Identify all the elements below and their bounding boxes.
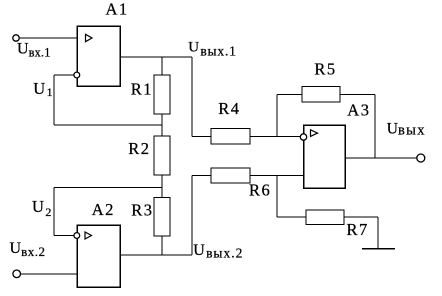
input terminal Uвх.2	[13, 270, 21, 278]
wire A1 output to node Uвых.1	[120, 56, 192, 58]
wire A1 feedback vertical	[53, 75, 55, 125]
wire R4 right to A3 inverting input	[250, 136, 301, 138]
resistor R2	[154, 136, 170, 175]
op-amp A2 inverting input circle	[74, 233, 80, 239]
svg-text:R7: R7	[347, 220, 369, 239]
resistor R7	[306, 210, 344, 225]
op-amp A1 inverting input circle	[74, 72, 80, 78]
op-amp A3 body	[304, 125, 346, 188]
wire to R4 left	[192, 136, 211, 138]
wire node to R1 top	[161, 57, 163, 75]
wire A2 output Uвых.2 line	[120, 254, 192, 256]
wire R7 branch vertical	[276, 176, 278, 218]
svg-text:R1: R1	[131, 79, 153, 98]
svg-text:R3: R3	[131, 201, 153, 220]
resistor R1	[154, 75, 170, 114]
wire to R5 left	[277, 94, 302, 96]
wire R6 right to A3 noninverting input	[250, 175, 304, 177]
svg-text:Uвх.2: Uвх.2	[10, 240, 46, 259]
op-amp A3 inverting input circle	[300, 134, 306, 140]
wire R5 branch vertical	[276, 95, 278, 137]
wire R6 left to node	[192, 175, 211, 177]
wire R7 right	[344, 216, 378, 218]
svg-text:R5: R5	[314, 60, 336, 79]
svg-text:R6: R6	[249, 180, 271, 199]
svg-text:A1: A1	[106, 0, 129, 18]
output terminal Uвых	[417, 154, 425, 162]
svg-text:A3: A3	[347, 100, 370, 119]
svg-text:U2: U2	[32, 197, 51, 219]
wire A3 output	[345, 157, 417, 159]
wire node Uвых.1 down	[191, 57, 193, 137]
wire R5 right	[340, 94, 375, 96]
wire R1 bottom to R2 top	[161, 114, 163, 136]
wire Uвх.1 to A1 noninverting input	[19, 37, 77, 39]
resistor R5	[302, 87, 340, 103]
wire Uвх.2 to A2 noninverting input	[21, 273, 78, 275]
svg-text:Uвых.1: Uвых.1	[188, 40, 236, 59]
op-amp A2 body	[77, 225, 120, 287]
op-amp A1 body	[77, 26, 120, 86]
wire A1 feedback horizontal to R1-R2 node	[54, 124, 162, 126]
svg-text:R4: R4	[218, 99, 240, 118]
svg-text:Uвх.1: Uвх.1	[17, 41, 51, 60]
wire down to ground	[377, 217, 379, 249]
svg-text:A2: A2	[92, 200, 115, 219]
svg-text:Uвых: Uвых	[387, 121, 426, 139]
op-amp A1 triangle symbol	[86, 34, 93, 41]
op-amp A2 triangle symbol	[85, 232, 92, 239]
input terminal Uвх.1	[13, 35, 19, 41]
wire R5 branch down to output	[374, 95, 376, 159]
wire A2 feedback horizontal to R2-R3 node	[54, 187, 162, 189]
op-amp A3 triangle symbol	[311, 130, 318, 137]
wire to R7 left	[277, 216, 306, 218]
wire to A2 inverting input	[54, 235, 74, 237]
resistor R4	[211, 129, 250, 145]
resistor R6	[211, 168, 250, 183]
wire R2 bottom to R3 top	[161, 175, 163, 198]
wire node down to Uвых.2 line	[191, 176, 193, 256]
wire R3 bottom to Uвых.2 line	[161, 236, 163, 255]
svg-text:Uвых.2: Uвых.2	[193, 242, 243, 261]
svg-text:U1: U1	[33, 79, 52, 99]
wire to A1 inverting input	[54, 74, 74, 76]
ground	[362, 248, 395, 250]
svg-text:R2: R2	[128, 139, 150, 158]
resistor R3	[154, 198, 170, 237]
wire A2 feedback vertical	[53, 188, 55, 236]
